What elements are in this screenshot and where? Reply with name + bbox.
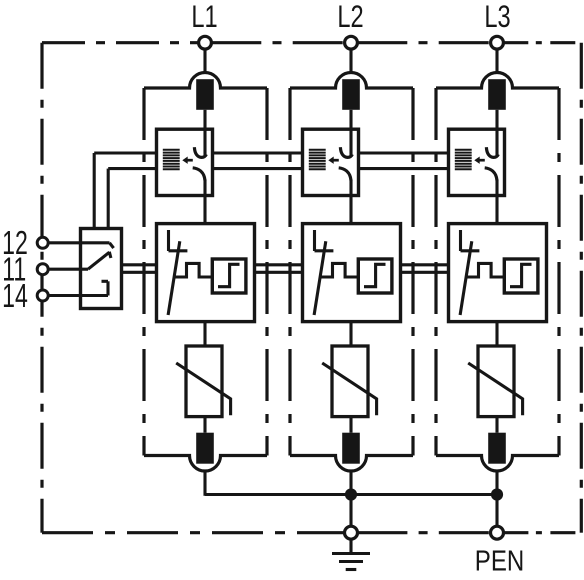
spark gap F1 upper electrode wire and horn xyxy=(194,129,206,157)
wire trigger unit to varistor L3 xyxy=(495,322,498,346)
protection module 1 box bottom edge with disconnector dome xyxy=(144,456,267,472)
trigger unit U3 box xyxy=(449,224,547,322)
protection module 3 box top edge with disconnector dome xyxy=(436,73,559,88)
remote signalling contact box xyxy=(81,229,122,309)
trigger unit U2 box xyxy=(303,224,401,322)
auxiliary switch vertical link right (to lower trigger chain) xyxy=(107,169,110,229)
contact 11 wire and switch blade xyxy=(48,252,111,269)
trigger chain wire upper: auxiliary switch to spark gap F1 xyxy=(94,151,156,154)
protection module 2 box top edge with disconnector dome xyxy=(290,73,413,89)
trigger unit U3 thermal trip symbol xyxy=(460,230,479,315)
enclosure right border xyxy=(580,43,583,533)
wire L1 terminal to upper disconnector xyxy=(203,49,206,73)
spark gap F3 box xyxy=(449,129,505,195)
wire node to earth terminal xyxy=(349,495,352,528)
trigger bus upper: auxiliary switch to trigger unit U1 xyxy=(122,263,157,266)
trigger chain wire lower: F2 to F3 xyxy=(359,167,449,170)
spark gap F2 lower electrode horn and wire xyxy=(339,168,351,224)
protection module 2 box bottom edge with disconnector dome xyxy=(290,456,413,472)
spark gap F2 arrow xyxy=(328,157,339,164)
spark gap F3 upper electrode wire and horn xyxy=(486,129,498,157)
terminal circle L3 xyxy=(491,36,504,49)
PE bus wire xyxy=(205,493,497,496)
varistor R3 xyxy=(468,346,522,417)
spark gap F3 lower electrode horn and wire xyxy=(485,168,497,224)
trigger unit U2 thermal trip symbol xyxy=(314,230,333,315)
trigger bus upper: U2 to U3 xyxy=(401,263,449,266)
protection module 3 box bottom edge with disconnector dome xyxy=(436,456,559,471)
protection module 3 box left edge xyxy=(434,88,437,456)
contact 14 wire and open contact hook xyxy=(48,281,108,295)
terminal circle 12 xyxy=(37,237,48,248)
trigger unit U3 step-function box xyxy=(504,259,538,293)
spark gap F3 trigger electrode (hatched block) xyxy=(455,150,472,170)
contact 12 wire and fixed contact xyxy=(48,243,114,248)
protection module 1 box right edge xyxy=(265,88,268,456)
auxiliary switch vertical link left (to upper trigger chain) xyxy=(93,153,96,229)
terminal circle 11 xyxy=(37,264,48,275)
trigger bus lower: auxiliary switch to trigger unit U1 xyxy=(122,271,157,274)
spark gap F1 trigger electrode (hatched block) xyxy=(163,150,180,170)
enclosure left border xyxy=(40,43,43,533)
wire varistor to lower disconnector L2 xyxy=(349,417,352,433)
svg-text:L2: L2 xyxy=(337,0,363,34)
trigger bus upper: U1 to U2 xyxy=(255,263,303,266)
trigger unit U1 box xyxy=(157,224,255,322)
spark gap F2 trigger electrode (hatched block) xyxy=(309,150,326,170)
svg-text:L1: L1 xyxy=(191,0,217,34)
trigger unit U1 step-function box xyxy=(212,259,246,293)
wire upper disconnector to spark gap L2 xyxy=(349,110,352,129)
enclosure bottom border xyxy=(42,531,581,534)
trigger unit U3 pulse waveform xyxy=(466,263,504,277)
spark gap F1 lower electrode horn and wire xyxy=(193,168,205,224)
trigger chain wire lower: F1 to F2 xyxy=(213,167,303,170)
wire L3 terminal to upper disconnector xyxy=(495,49,498,73)
enclosure top border xyxy=(42,41,581,44)
wire node to PEN terminal xyxy=(495,495,498,528)
protection module 3 box right edge xyxy=(557,88,560,456)
wire lower disconnector dome to PE bus L1 xyxy=(203,471,206,496)
trigger chain wire upper: F2 to F3 xyxy=(359,151,449,154)
thermal disconnector upper L1 (black cartridge) xyxy=(196,79,214,110)
wire lower disconnector dome to PE bus L3 xyxy=(495,471,498,496)
protection module 1 box left edge xyxy=(142,88,145,456)
junction node under L3 xyxy=(491,488,503,500)
svg-text:PEN: PEN xyxy=(475,544,524,577)
thermal disconnector lower L2 (black cartridge) xyxy=(342,433,360,464)
wire L2 terminal to upper disconnector xyxy=(349,49,352,73)
trigger unit U1 thermal trip symbol xyxy=(168,230,187,315)
svg-text:14: 14 xyxy=(2,278,28,315)
protection module 2 box left edge xyxy=(288,88,291,456)
junction node under L2 xyxy=(345,488,357,500)
trigger unit U2 step-function box xyxy=(358,259,392,293)
spark gap F1 box xyxy=(157,129,213,195)
wire trigger unit to varistor L1 xyxy=(203,322,206,346)
wire lower disconnector dome to PE bus L2 xyxy=(349,471,352,496)
trigger chain wire lower: auxiliary switch to spark gap F1 xyxy=(108,167,156,170)
terminal circle 14 xyxy=(37,290,48,301)
spark gap F2 box xyxy=(303,129,359,195)
wire upper disconnector to spark gap L3 xyxy=(495,110,498,129)
thermal disconnector lower L3 (black cartridge) xyxy=(488,433,506,464)
spark gap F2 upper electrode wire and horn xyxy=(340,129,352,157)
thermal disconnector lower L1 (black cartridge) xyxy=(196,433,214,464)
wire varistor to lower disconnector L1 xyxy=(203,417,206,433)
PEN terminal circle xyxy=(491,526,504,539)
thermal disconnector upper L2 (black cartridge) xyxy=(342,79,360,110)
terminal circle L2 xyxy=(345,36,358,49)
varistor R2 xyxy=(322,346,376,417)
terminal circle L1 xyxy=(199,36,212,49)
trigger bus lower: U2 to U3 xyxy=(401,271,449,274)
thermal disconnector upper L3 (black cartridge) xyxy=(488,79,506,110)
trigger unit U1 pulse waveform xyxy=(174,263,212,277)
varistor R1 xyxy=(176,346,230,417)
earth terminal circle xyxy=(345,526,358,539)
spark gap F1 arrow xyxy=(182,157,193,164)
trigger chain wire upper: F1 to F2 xyxy=(213,151,303,154)
trigger bus lower: U1 to U2 xyxy=(255,271,303,274)
protection module 2 box right edge xyxy=(411,88,414,456)
trigger unit U2 pulse waveform xyxy=(320,263,358,277)
protection module 1 box top edge with disconnector dome xyxy=(144,73,267,89)
svg-text:L3: L3 xyxy=(484,0,510,34)
wire varistor to lower disconnector L3 xyxy=(495,417,498,433)
wire trigger unit to varistor L2 xyxy=(349,322,352,346)
wire upper disconnector to spark gap L1 xyxy=(203,110,206,129)
ground symbol xyxy=(332,539,370,569)
spark gap F3 arrow xyxy=(474,157,485,164)
